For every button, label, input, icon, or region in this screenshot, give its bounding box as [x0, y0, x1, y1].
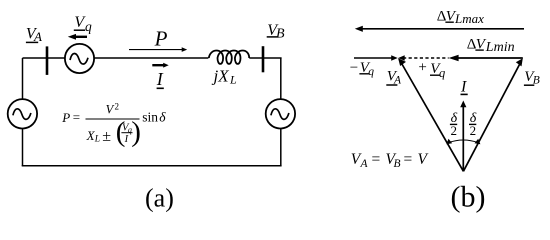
svg-text:I: I	[156, 69, 164, 89]
svg-text:2: 2	[115, 102, 120, 112]
vector VA	[398, 58, 463, 171]
svg-text:Lmin: Lmin	[485, 40, 515, 55]
wire left vertical upper	[22, 58, 24, 99]
label jXL	[212, 66, 238, 86]
svg-text:=: =	[404, 151, 413, 168]
arrow I (thick, right)	[152, 63, 168, 68]
label I (a)	[156, 69, 164, 89]
line -Vq with arrowhead to apex	[354, 55, 398, 60]
arrow Vq (thick, left)	[68, 34, 87, 40]
svg-text:Lmax: Lmax	[454, 11, 484, 26]
inductor jXL	[209, 51, 249, 64]
label VA (a)	[26, 26, 42, 45]
label VA (b)	[386, 68, 402, 86]
svg-text:I: I	[124, 134, 129, 145]
svg-text:(b): (b)	[451, 180, 486, 213]
formula P = V^2/(XL +/- (Vq/I)) sin d	[61, 102, 166, 148]
label dVLmax	[437, 8, 484, 26]
label dVLmin	[467, 36, 515, 55]
source U1 (Vq)	[65, 44, 94, 73]
label -Vq (b)	[350, 60, 375, 78]
svg-text:q: q	[85, 19, 92, 34]
svg-text:δ: δ	[159, 110, 166, 125]
svg-text:(a): (a)	[145, 184, 174, 213]
svg-text:=: =	[73, 110, 80, 125]
svg-text:A: A	[360, 158, 369, 170]
source G1 (left)	[8, 99, 37, 128]
label VB (a)	[267, 22, 285, 41]
bus bar VA	[46, 46, 49, 75]
wire bottom	[22, 165, 282, 167]
label I (b)	[460, 78, 468, 95]
fraction bar	[86, 118, 140, 120]
svg-text:q: q	[439, 66, 445, 80]
label Vq (a)	[74, 14, 92, 34]
fraction delta/2 left	[450, 111, 458, 138]
vector VB	[463, 58, 522, 171]
svg-text:P: P	[61, 110, 70, 125]
svg-text:−: −	[350, 60, 358, 76]
arrow P (thin, right)	[129, 47, 187, 52]
bus bar VB	[262, 46, 265, 72]
svg-text:L: L	[229, 73, 237, 87]
svg-text:B: B	[394, 158, 401, 170]
svg-text:=: =	[372, 151, 381, 168]
wire left vertical lower	[22, 129, 24, 166]
dashed +Vq segment with arrowhead toward apex	[398, 55, 448, 60]
svg-text:+: +	[418, 60, 426, 76]
svg-text:jX: jX	[212, 66, 230, 85]
arrow dVLmin (tail at VB apex)	[449, 55, 523, 61]
svg-text:V: V	[418, 151, 429, 168]
label +Vq (b)	[418, 60, 445, 80]
svg-text:P: P	[154, 26, 168, 50]
svg-text:I: I	[460, 78, 467, 95]
wire right vertical lower	[280, 129, 282, 166]
angle arc	[446, 139, 480, 145]
svg-text:B: B	[276, 26, 285, 41]
arrow dVLmax	[355, 26, 524, 32]
fraction delta/2 right	[469, 111, 477, 138]
source G2 (right)	[266, 99, 295, 128]
svg-text:2: 2	[451, 123, 458, 138]
label VA = VB = V	[351, 151, 429, 170]
svg-text:q: q	[128, 126, 132, 135]
wire source-to-inductor	[94, 57, 208, 59]
svg-text:q: q	[368, 66, 374, 78]
wire inductor-to-corner	[249, 57, 281, 59]
svg-text:L: L	[94, 135, 100, 145]
svg-text:2: 2	[470, 123, 477, 138]
wire right vertical upper	[280, 58, 282, 99]
vector I	[460, 101, 466, 172]
svg-text:±: ±	[102, 128, 111, 145]
wire top-left segment	[23, 57, 65, 59]
svg-text:sin: sin	[142, 110, 158, 125]
svg-text:): )	[131, 116, 141, 148]
label VB (b)	[524, 69, 540, 87]
